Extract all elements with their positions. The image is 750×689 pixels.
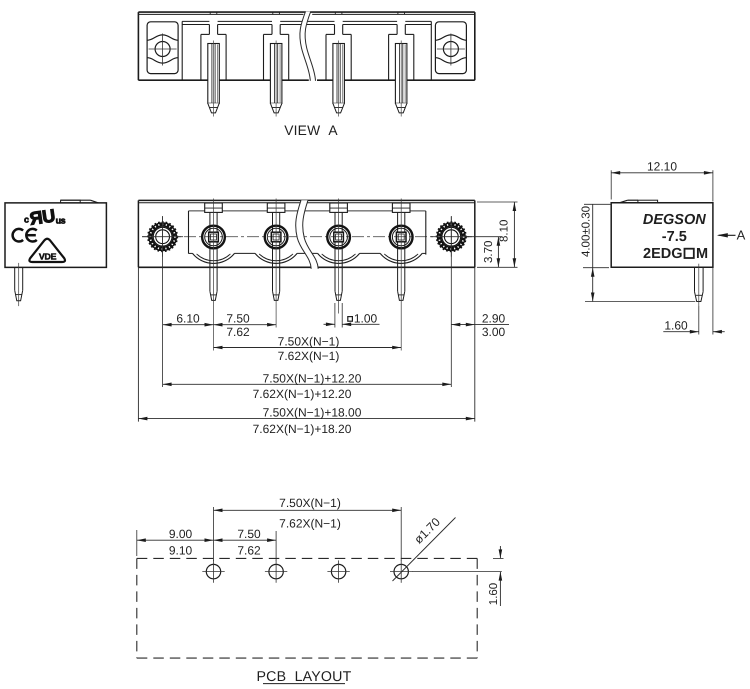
svg-text:12.10: 12.10 xyxy=(647,159,677,173)
svg-text:A: A xyxy=(737,228,746,243)
top view break line xyxy=(300,12,316,81)
left side view body xyxy=(5,200,106,267)
pin (right side view) xyxy=(695,264,704,307)
dimension square 1.00 (pin cross-section) xyxy=(324,303,380,328)
svg-text:2.90: 2.90 xyxy=(482,312,506,326)
PCB hole diameter leader 1.70 xyxy=(393,518,456,582)
dimension 6.10 xyxy=(163,323,214,327)
PCB hole 2 xyxy=(265,560,287,582)
svg-text:1.60: 1.60 xyxy=(488,583,500,605)
pin (left side view) xyxy=(15,263,23,306)
top view flange divider walls xyxy=(182,21,431,80)
top view pin slots xyxy=(201,12,414,80)
front view socket cavity xyxy=(189,211,426,264)
pin 4 (front view) with contact circle xyxy=(390,199,413,351)
svg-text:1.00: 1.00 xyxy=(354,312,378,326)
view direction arrow A xyxy=(717,233,736,237)
extension lines below front view xyxy=(138,216,474,422)
pin 2 (front view) with contact circle xyxy=(265,199,288,328)
PCB dimension 7.50X(N-1) / 7.62X(N-1) xyxy=(214,509,402,513)
pin 3 (front view) with contact circle xyxy=(327,199,350,314)
svg-text:7.62: 7.62 xyxy=(237,544,261,558)
left knurled screw (front view) xyxy=(142,217,183,257)
PCB hole 1 xyxy=(202,560,224,582)
svg-text:7.50X(N−1): 7.50X(N−1) xyxy=(278,335,340,349)
VDE triangle mark xyxy=(29,239,65,262)
right side view body xyxy=(611,200,713,267)
svg-text:3.70: 3.70 xyxy=(483,241,495,263)
dimension 7.50 / 7.62 xyxy=(214,323,277,327)
dimension 3.70 xyxy=(466,237,502,268)
dimension 1.60 (right side view) xyxy=(663,267,724,334)
front view break line xyxy=(296,200,318,269)
PCB hole 4 xyxy=(390,560,412,582)
svg-text:8.10: 8.10 xyxy=(499,220,511,242)
svg-text:9.00: 9.00 xyxy=(169,527,193,541)
top view ledge lines xyxy=(182,21,431,24)
front view horizontal centerline xyxy=(142,236,471,238)
svg-text:-7.5: -7.5 xyxy=(662,229,687,245)
pin 1 (top view) xyxy=(208,41,220,117)
dimension 8.10 (right of front view) xyxy=(477,202,518,267)
svg-text:1.60: 1.60 xyxy=(664,318,688,332)
svg-text:us: us xyxy=(56,215,66,225)
svg-text:7.50: 7.50 xyxy=(237,527,261,541)
svg-text:7.50X(N−1): 7.50X(N−1) xyxy=(279,496,341,510)
UL recognized mark (cRUus logo) xyxy=(24,206,66,229)
front view body outline xyxy=(138,200,474,267)
svg-text:9.10: 9.10 xyxy=(169,544,193,558)
svg-text:VDE: VDE xyxy=(39,252,57,262)
svg-text:VIEW A: VIEW A xyxy=(284,123,338,138)
pin 1 (front view) with contact circle xyxy=(202,199,225,351)
pin 2 (top view) xyxy=(270,41,282,117)
right knurled screw (front view) xyxy=(431,217,472,257)
dimension 4.00 +/- 0.30 xyxy=(583,204,695,301)
svg-text:ЯU: ЯU xyxy=(28,206,56,229)
PCB dimension 9.00 / 9.10 xyxy=(137,538,214,542)
svg-text:7.62X(N−1): 7.62X(N−1) xyxy=(279,517,341,531)
svg-text:DEGSON: DEGSON xyxy=(643,212,706,228)
svg-text:7.62X(N−1)+18.20: 7.62X(N−1)+18.20 xyxy=(253,422,352,436)
svg-text:7.50: 7.50 xyxy=(226,312,250,326)
pin 4 (top view) xyxy=(395,41,407,117)
PCB layout dashed board outline xyxy=(137,558,477,658)
dimension 7.50X(N-1)+18.00 / 7.62X(N-1)+18.20 xyxy=(138,417,474,421)
svg-text:7.62X(N−1)+12.20: 7.62X(N−1)+12.20 xyxy=(253,387,352,401)
top view left mounting flange xyxy=(147,22,178,74)
PCB hole 3 xyxy=(327,560,349,582)
dimension 12.10 xyxy=(611,170,713,201)
2EDGxM text xyxy=(643,246,708,262)
svg-text:2EDG: 2EDG xyxy=(643,246,683,262)
dimension 7.50X(N-1)+12.20 / 7.62X(N-1)+12.20 xyxy=(163,383,452,387)
svg-text:6.10: 6.10 xyxy=(176,312,200,326)
svg-text:M: M xyxy=(696,246,708,262)
PCB dimension 7.50 / 7.62 xyxy=(214,538,277,542)
svg-text:7.62: 7.62 xyxy=(226,325,250,339)
svg-text:PCB LAYOUT: PCB LAYOUT xyxy=(257,669,352,685)
svg-text:7.50X(N−1)+12.20: 7.50X(N−1)+12.20 xyxy=(263,371,362,385)
CE mark xyxy=(13,229,37,242)
pin 3 (top view) xyxy=(333,41,345,117)
svg-text:3.00: 3.00 xyxy=(482,325,506,339)
top view right mounting flange xyxy=(435,22,466,74)
PCB dimension 1.60 xyxy=(412,546,504,606)
PCB extension lines xyxy=(137,507,401,561)
svg-text:7.62X(N−1): 7.62X(N−1) xyxy=(278,349,340,363)
svg-text:c: c xyxy=(24,215,29,225)
svg-text:7.50X(N−1)+18.00: 7.50X(N−1)+18.00 xyxy=(263,406,362,420)
svg-text:4.00±0.30: 4.00±0.30 xyxy=(581,206,593,257)
top view: connector body seen from above xyxy=(138,12,474,80)
dimension 2.90 / 3.00 xyxy=(451,323,509,327)
dimension 7.50X(N-1) / 7.62X(N-1) xyxy=(214,346,402,350)
